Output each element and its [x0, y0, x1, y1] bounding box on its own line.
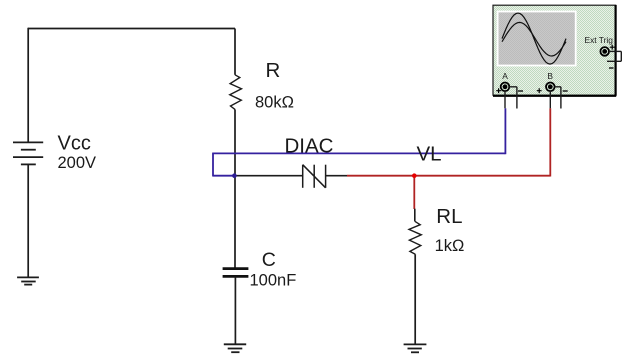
pin A+ stub — [504, 91, 506, 109]
wire: top horizontal from Vcc to R — [28, 28, 235, 30]
oscilloscope XSC1 body — [493, 5, 616, 95]
svg-text:B: B — [547, 71, 553, 81]
wire: Vcc bottom lead to ground — [27, 164, 29, 277]
wire: node to DIAC left lead — [235, 175, 303, 177]
ground (battery) — [17, 277, 39, 284]
wire: node to capacitor C — [234, 176, 236, 268]
svg-text:80kΩ: 80kΩ — [255, 94, 294, 112]
plus mark (A) — [496, 88, 501, 93]
wire: R bottom to node — [234, 109, 236, 176]
ground (capacitor) — [224, 344, 246, 352]
wire: DIAC right lead (black) — [326, 175, 347, 177]
pin A- stub — [509, 87, 517, 109]
svg-text:A: A — [502, 71, 508, 81]
channel B terminal — [546, 83, 555, 92]
waveform channel B (inner sine) — [502, 22, 566, 56]
channel A terminal — [501, 83, 510, 92]
svg-text:Ext Trig: Ext Trig — [585, 35, 614, 45]
svg-text:200V: 200V — [58, 154, 97, 172]
waveform channel A (outer sine) — [502, 13, 566, 64]
wire: RL top lead (black) — [414, 209, 416, 222]
resistor R — [230, 75, 242, 110]
pin T- stub — [607, 51, 621, 61]
node junction (blue) at R/C/DIAC — [232, 173, 237, 178]
minus mark (Ext Trig) — [609, 67, 614, 69]
svg-text:C: C — [262, 249, 276, 271]
Ext Trig terminal (T) — [600, 47, 609, 56]
svg-text:R: R — [266, 59, 281, 82]
plus mark (Ext Trig) — [610, 45, 615, 50]
svg-text:100nF: 100nF — [250, 272, 297, 290]
wire VL net (blue) from node up and right to scope A — [212, 108, 505, 176]
plus mark (B) — [537, 88, 542, 93]
svg-text:Vcc: Vcc — [58, 133, 91, 155]
svg-text:1kΩ: 1kΩ — [435, 237, 465, 255]
wire: red net from DIAC to scope B — [347, 108, 550, 209]
resistor RL — [409, 221, 421, 254]
svg-text:VL: VL — [417, 143, 442, 166]
wire: RL bottom lead to ground — [414, 254, 416, 344]
pin B- stub — [555, 87, 561, 109]
oscilloscope screen — [497, 11, 577, 67]
pin T+ stub — [609, 50, 621, 52]
wire: Vcc top lead vertical — [27, 28, 29, 142]
wire: top to resistor R — [234, 29, 236, 75]
pin B+ stub — [549, 91, 551, 109]
battery Vcc (DC source) — [13, 142, 43, 164]
wire: C bottom lead to ground — [234, 276, 236, 344]
svg-text:RL: RL — [436, 205, 462, 228]
minus mark (A) — [518, 90, 523, 92]
minus mark (B) — [563, 90, 568, 92]
capacitor C — [223, 269, 249, 277]
ground (RL) — [404, 344, 427, 352]
DIAC D1 — [303, 165, 326, 188]
node junction (red) at RL — [412, 173, 417, 178]
